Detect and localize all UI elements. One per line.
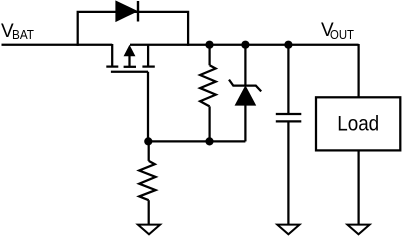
zener diode Z1 [229, 45, 261, 142]
ground: under load [347, 225, 369, 235]
node: rail junction at resistor R1 [205, 41, 213, 49]
ground: under resistor R2 [138, 225, 160, 235]
node: rail junction at capacitor [284, 41, 292, 49]
node: feedback junction at gate [144, 137, 152, 145]
MOSFET Q1 [106, 44, 155, 72]
wire: VBAT rail left segment [2, 44, 113, 46]
capacitor C1 [276, 45, 302, 224]
svg-text:Load: Load [337, 113, 379, 136]
wire: bottom feedback wire [148, 140, 246, 142]
wire: gate down to feedback node [147, 72, 149, 142]
node: rail junction at zener [241, 41, 249, 49]
label V_OUT [321, 20, 354, 42]
resistor R1 [200, 45, 216, 142]
wire: VOUT drop to load [357, 44, 359, 97]
resistor R2 [139, 141, 155, 224]
node: feedback junction at resistor R1 [205, 137, 213, 145]
svg-text:OUT: OUT [330, 27, 354, 42]
wire: diode bypass loop [78, 12, 188, 46]
load block [316, 97, 400, 150]
label V_BAT [1, 21, 34, 42]
diode D1 [116, 1, 138, 22]
wire: load to ground [357, 150, 359, 224]
wire: rail right segment to VOUT corner [130, 44, 359, 46]
ground: under capacitor [277, 225, 299, 235]
svg-text:BAT: BAT [12, 27, 34, 42]
